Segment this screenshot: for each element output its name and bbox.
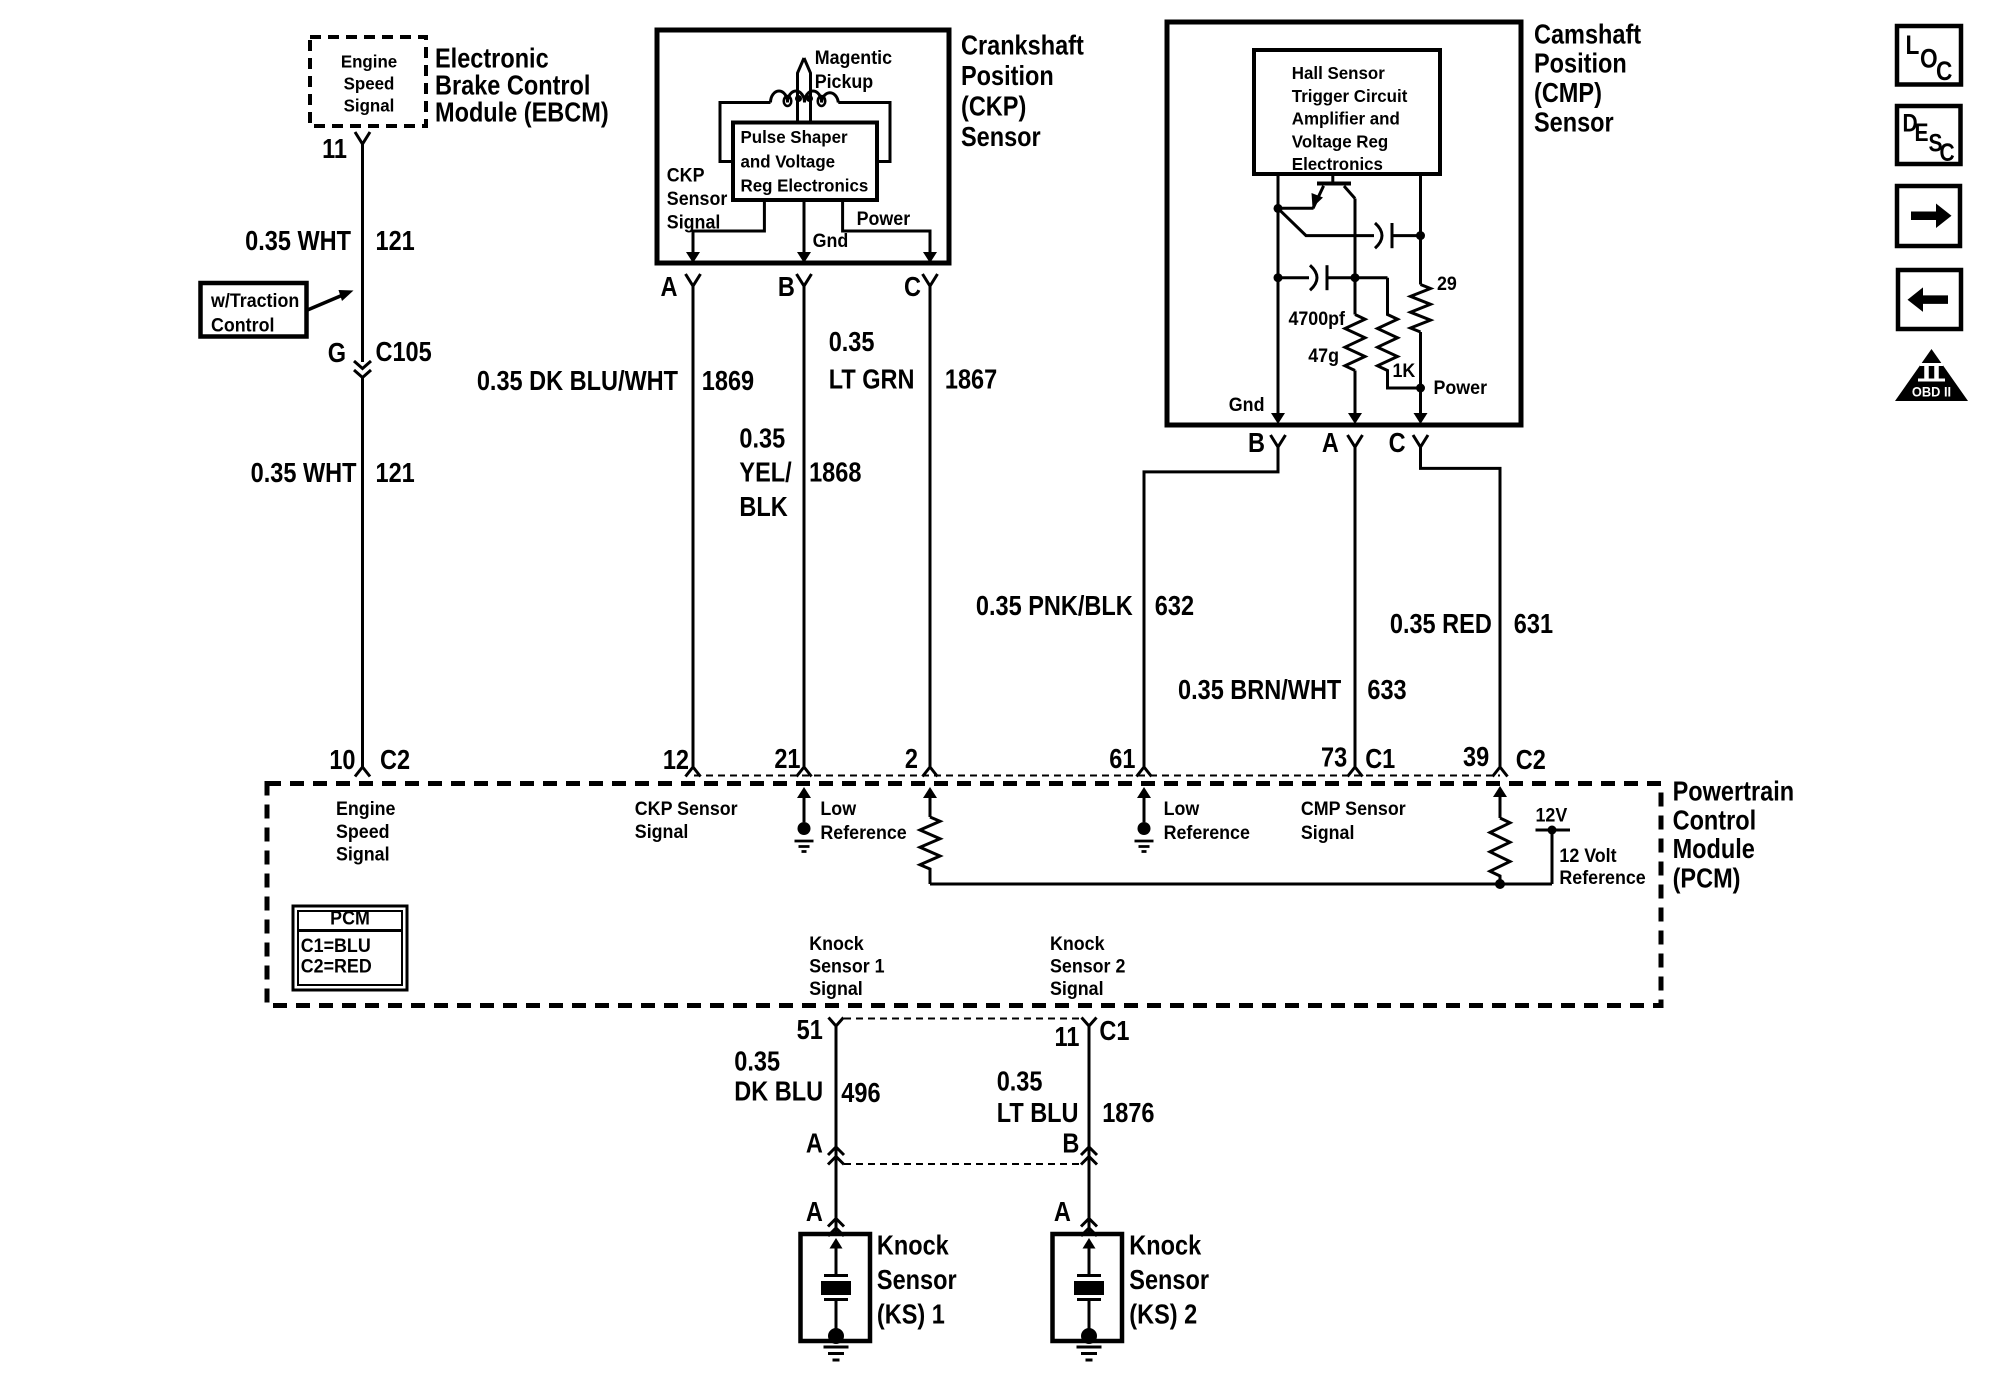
wire circuit 121 lower segment (C105 to PCM pin 10): [361, 378, 364, 768]
svg-text:E: E: [1915, 118, 1929, 146]
pin 11 connector Y: [355, 132, 370, 144]
pin 21 ground dot: [798, 822, 811, 835]
svg-text:Speed: Speed: [336, 820, 390, 842]
svg-text:Reference: Reference: [1559, 866, 1645, 888]
transistor Q1 collector: [1344, 186, 1355, 199]
CKP sensor outer box: [657, 30, 949, 263]
svg-text:BLK: BLK: [739, 492, 788, 522]
KS2 pin chevrons: [1081, 1219, 1097, 1237]
pin B connector Y: [797, 274, 812, 286]
KS1 internal arrow: [830, 1238, 843, 1249]
KS2 ground: [1077, 1347, 1102, 1360]
pin 21 ground: [795, 841, 814, 852]
pulse shaper inner box: [733, 123, 877, 201]
label Engine Speed Signal (PCM): [336, 797, 395, 864]
pins 51-11 thin dashed line: [844, 1018, 1082, 1020]
svg-text:Engine: Engine: [341, 51, 398, 72]
wire signal stub to pin A: [693, 200, 764, 253]
svg-text:PCM: PCM: [330, 907, 370, 929]
icon LOC box: [1897, 26, 1961, 85]
svg-text:w/Traction: w/Traction: [210, 289, 299, 311]
capacitor C1 (upper): [1375, 223, 1382, 248]
svg-text:(PCM): (PCM): [1673, 863, 1741, 893]
svg-text:Signal: Signal: [1301, 821, 1355, 843]
svg-text:DK BLU: DK BLU: [734, 1077, 823, 1107]
label Magentic Pickup: [815, 46, 892, 92]
KS2 piezo element: [1077, 1274, 1101, 1277]
PCM legend box: [293, 906, 407, 990]
svg-text:Signal: Signal: [344, 95, 395, 116]
label Knock Sensor 1 Signal: [809, 933, 884, 999]
wire 12V riser: [1551, 830, 1554, 884]
resistor 47g: [1345, 315, 1365, 371]
svg-text:B: B: [1062, 1129, 1079, 1159]
label CKP Sensor Signal (PCM): [635, 797, 738, 842]
svg-text:(KS) 2: (KS) 2: [1129, 1300, 1197, 1330]
svg-text:121: 121: [376, 226, 415, 256]
wire gnd stub to pin B: [803, 200, 806, 253]
transistor Q1 base bar: [1317, 182, 1351, 186]
svg-text:12: 12: [663, 745, 689, 775]
harness connector thin dashed line: [844, 1163, 1082, 1165]
wire emitter node to capacitor C1: [1278, 208, 1374, 235]
pin 51 connector Y: [829, 1018, 844, 1027]
node dot 12V bus: [1495, 879, 1505, 889]
svg-text:Sensor: Sensor: [1534, 107, 1614, 137]
svg-text:C: C: [1389, 428, 1406, 458]
svg-text:0.35 BRN/WHT: 0.35 BRN/WHT: [1178, 675, 1341, 705]
pin C connector Y: [923, 274, 938, 286]
svg-text:Sensor: Sensor: [667, 187, 727, 209]
svg-text:Electronic: Electronic: [435, 44, 549, 74]
svg-text:0.35 RED: 0.35 RED: [1390, 609, 1492, 639]
svg-text:0.35: 0.35: [829, 327, 875, 357]
svg-text:and Voltage: and Voltage: [741, 151, 836, 172]
svg-text:O: O: [1920, 44, 1938, 74]
svg-text:YEL/: YEL/: [739, 458, 791, 488]
w/Traction Control callout box: [201, 283, 307, 337]
svg-text:Sensor 2: Sensor 2: [1050, 955, 1125, 977]
CMP title "Camshaft Position (CMP) Sensor": [1534, 20, 1641, 138]
capacitor C2 (lower, 4700pf): [1278, 276, 1309, 279]
label CMP Sensor Signal (PCM): [1301, 797, 1406, 843]
svg-text:Camshaft: Camshaft: [1534, 20, 1641, 50]
svg-text:C1: C1: [1365, 744, 1395, 774]
label 12 Volt Reference: [1559, 844, 1645, 888]
svg-text:633: 633: [1367, 675, 1406, 705]
node dot B-wire lower cap: [1274, 273, 1283, 282]
wire circuit 1869 (CKP A to PCM 12): [692, 286, 695, 767]
label 0.35 YEL/ BLK: [739, 424, 791, 523]
svg-text:Reg Electronics: Reg Electronics: [741, 175, 869, 196]
pin 39 connector Y: [1493, 767, 1508, 777]
12V terminal bar: [1536, 829, 1571, 832]
label Low Reference (pin 21): [820, 797, 906, 843]
svg-text:C2: C2: [1516, 745, 1546, 775]
svg-text:Crankshaft: Crankshaft: [961, 31, 1084, 61]
KS1 ground: [824, 1347, 849, 1360]
svg-text:C1=BLU: C1=BLU: [301, 934, 371, 956]
svg-text:LT GRN: LT GRN: [829, 365, 915, 395]
wire CMP B internal: [1277, 174, 1280, 414]
svg-text:Control: Control: [1673, 806, 1757, 836]
svg-text:Sensor: Sensor: [877, 1265, 957, 1295]
PCM title "Powertrain Control Module (PCM)": [1673, 777, 1794, 894]
resistor R2 (pin 39 pullup): [1490, 818, 1510, 884]
svg-text:G: G: [328, 338, 346, 368]
svg-text:A: A: [806, 1129, 823, 1159]
svg-text:61: 61: [1109, 744, 1135, 774]
inline connector chevrons (496): [828, 1147, 844, 1165]
svg-text:B: B: [778, 272, 795, 302]
inline connector chevrons (1876): [1081, 1147, 1097, 1165]
pin 39 internal arrow: [1493, 786, 1507, 797]
KS2 internal arrow: [1083, 1238, 1096, 1249]
pin 11 connector Y (PCM C1): [1082, 1018, 1097, 1027]
pin 21 internal arrow: [797, 787, 811, 798]
svg-text:C105: C105: [376, 337, 432, 367]
svg-text:496: 496: [841, 1078, 880, 1108]
svg-text:Gnd: Gnd: [1229, 393, 1265, 415]
pin 61 ground: [1135, 841, 1154, 852]
svg-text:Module: Module: [1673, 834, 1755, 864]
svg-text:10: 10: [329, 745, 355, 775]
svg-text:OBD II: OBD II: [1912, 384, 1951, 399]
wire CMP C internal: [1419, 174, 1422, 414]
pin 61 internal arrow: [1137, 787, 1151, 798]
icon DESC box: [1897, 106, 1961, 164]
svg-text:Position: Position: [961, 61, 1054, 91]
w/Traction callout arrow: [306, 295, 344, 311]
svg-text:LT BLU: LT BLU: [997, 1098, 1079, 1128]
svg-text:C2=RED: C2=RED: [301, 955, 372, 977]
svg-text:Hall Sensor: Hall Sensor: [1292, 63, 1385, 84]
wire circuit 121 upper segment (EBCM to C105): [361, 144, 364, 362]
svg-text:Powertrain: Powertrain: [1673, 777, 1794, 807]
svg-text:Knock: Knock: [877, 1231, 949, 1261]
svg-text:0.35 PNK/BLK: 0.35 PNK/BLK: [976, 591, 1133, 621]
label Knock Sensor (KS) 1: [877, 1231, 957, 1330]
svg-text:0.35: 0.35: [734, 1047, 780, 1077]
svg-text:Engine: Engine: [336, 797, 395, 819]
svg-text:11: 11: [322, 134, 347, 164]
PCM dashed box: [267, 784, 1661, 1006]
svg-text:A: A: [661, 272, 678, 302]
svg-text:B: B: [1248, 428, 1265, 458]
svg-text:Gnd: Gnd: [813, 229, 849, 251]
node dot C1/C-wire: [1416, 231, 1425, 240]
pin B connector Y (CMP): [1271, 435, 1286, 447]
wire 12V reference bus: [930, 883, 1552, 886]
wire circuit 632 (CMP B to PCM 61): [1144, 447, 1278, 767]
coil junction dots: [795, 95, 802, 102]
svg-text:L: L: [1906, 30, 1920, 60]
svg-text:632: 632: [1155, 591, 1194, 621]
svg-text:Knock: Knock: [1129, 1231, 1201, 1261]
svg-text:0.35: 0.35: [997, 1067, 1043, 1097]
svg-text:Signal: Signal: [635, 820, 689, 842]
svg-text:Magentic: Magentic: [815, 46, 892, 68]
pin 2 connector Y: [923, 767, 938, 777]
svg-text:A: A: [806, 1197, 823, 1227]
svg-text:12V: 12V: [1536, 804, 1568, 826]
transistor Q1 emitter with arrow: [1278, 186, 1324, 209]
svg-text:Sensor: Sensor: [1129, 1265, 1209, 1295]
EBCM title "Electronic Brake Control Module (EBCM)": [435, 44, 609, 128]
wire circuit 1868 (CKP B to PCM 21): [803, 286, 806, 767]
node dot emitter/B-wire: [1274, 204, 1283, 213]
wire circuit 633 (CMP A to PCM 73): [1354, 447, 1357, 767]
hall sensor inner box: [1254, 50, 1440, 174]
pin A connector Y: [686, 274, 701, 286]
node dot power: [1416, 384, 1425, 393]
transistor Q1 base stub: [1331, 174, 1334, 182]
svg-text:C: C: [1936, 56, 1952, 86]
svg-text:C2: C2: [380, 745, 410, 775]
svg-text:73: 73: [1321, 743, 1347, 773]
svg-text:1876: 1876: [1102, 1098, 1154, 1128]
svg-text:C: C: [1940, 138, 1955, 166]
svg-text:4700pf: 4700pf: [1288, 307, 1345, 329]
svg-text:Signal: Signal: [809, 977, 863, 999]
svg-text:1869: 1869: [702, 366, 754, 396]
svg-text:(CKP): (CKP): [961, 92, 1026, 122]
svg-text:Pulse Shaper: Pulse Shaper: [741, 127, 848, 148]
svg-text:C1: C1: [1099, 1016, 1129, 1046]
svg-text:631: 631: [1514, 609, 1553, 639]
knock sensor KS2 box: [1053, 1234, 1123, 1341]
KS1 pin chevrons: [828, 1219, 844, 1237]
svg-text:2: 2: [905, 744, 918, 774]
KS1 piezo element: [824, 1274, 848, 1277]
icon OBD II triangle: [1895, 349, 1968, 401]
wire circuit 1867 (CKP C to PCM 2): [929, 286, 932, 767]
svg-text:Reference: Reference: [1164, 821, 1250, 843]
svg-text:Position: Position: [1534, 49, 1627, 79]
svg-text:0.35 WHT: 0.35 WHT: [245, 226, 351, 256]
wire power stub to pin C: [843, 200, 930, 253]
svg-text:29: 29: [1437, 272, 1457, 294]
svg-text:12 Volt: 12 Volt: [1559, 844, 1616, 866]
svg-text:Signal: Signal: [667, 211, 721, 233]
pin 73 connector Y: [1348, 767, 1363, 777]
label Low Reference (pin 61): [1164, 797, 1250, 843]
svg-text:1867: 1867: [945, 365, 997, 395]
svg-text:Reference: Reference: [820, 821, 906, 843]
svg-text:11: 11: [1055, 1022, 1080, 1052]
svg-text:47g: 47g: [1308, 344, 1339, 366]
svg-text:0.35 WHT: 0.35 WHT: [251, 458, 357, 488]
svg-text:C: C: [904, 272, 921, 302]
resistor 29: [1411, 285, 1431, 333]
EBCM internal label "Engine Speed Signal": [341, 51, 398, 116]
svg-text:Amplifier and: Amplifier and: [1292, 108, 1400, 129]
EBCM module dashed box: [310, 37, 426, 126]
pin 61 ground dot: [1138, 822, 1151, 835]
label 0.35 DK BLU: [734, 1047, 823, 1107]
label CKP Sensor Signal: [667, 164, 727, 233]
svg-text:1868: 1868: [809, 458, 861, 488]
svg-text:CKP: CKP: [667, 164, 705, 186]
svg-text:A: A: [1322, 428, 1339, 458]
svg-text:Trigger Circuit: Trigger Circuit: [1292, 86, 1408, 107]
svg-text:Speed: Speed: [344, 73, 395, 94]
svg-text:0.35 DK BLU/WHT: 0.35 DK BLU/WHT: [477, 366, 678, 396]
svg-text:Electronics: Electronics: [1292, 154, 1383, 175]
svg-text:0.35: 0.35: [739, 424, 785, 454]
resistor R1 (pin 2 pullup): [920, 817, 940, 884]
svg-text:Signal: Signal: [1050, 977, 1104, 999]
svg-text:51: 51: [797, 1015, 823, 1045]
label 0.35 LT GRN: [829, 327, 915, 395]
pin 21 connector Y: [797, 767, 812, 777]
svg-text:Brake Control: Brake Control: [435, 71, 590, 101]
svg-text:Sensor: Sensor: [961, 122, 1041, 152]
connector C105 double chevron: [354, 361, 371, 378]
wire circuit 631 (CMP C to PCM 39): [1421, 447, 1501, 767]
label Knock Sensor 2 Signal: [1050, 933, 1125, 999]
wire coil right rail: [838, 103, 890, 162]
svg-text:39: 39: [1463, 742, 1489, 772]
pin 61 connector Y: [1137, 767, 1152, 777]
svg-text:Pickup: Pickup: [815, 70, 874, 92]
CKP title "Crankshaft Position (CKP) Sensor": [961, 31, 1084, 153]
wire circuit 496 (PCM 51 to KS1): [835, 1026, 838, 1234]
pin 12 connector Y: [686, 767, 701, 777]
icon left arrow box: [1898, 270, 1961, 329]
svg-text:21: 21: [774, 744, 800, 774]
knock sensor KS1 box: [801, 1234, 871, 1341]
wire CMP A internal: [1354, 199, 1357, 415]
svg-text:(KS) 1: (KS) 1: [877, 1300, 945, 1330]
svg-text:Knock: Knock: [809, 933, 864, 955]
magnetic pickup needle: [798, 58, 811, 123]
pickup coil L1: [771, 91, 839, 102]
label Knock Sensor (KS) 2: [1129, 1231, 1209, 1330]
svg-text:Low: Low: [820, 797, 856, 819]
svg-text:Signal: Signal: [336, 843, 390, 865]
pin A connector Y (CMP): [1348, 435, 1363, 447]
svg-text:A: A: [1054, 1197, 1071, 1227]
svg-text:Voltage Reg: Voltage Reg: [1292, 131, 1388, 152]
icon right arrow box: [1897, 186, 1960, 246]
svg-text:Module (EBCM): Module (EBCM): [435, 98, 609, 128]
wire circuit 1876 (PCM 11 to KS2): [1088, 1026, 1091, 1234]
svg-text:Knock: Knock: [1050, 933, 1105, 955]
svg-text:Power: Power: [1434, 376, 1488, 398]
pin 10 connector Y: [355, 767, 370, 777]
KS2 case ground dot: [1081, 1328, 1097, 1344]
resistor 1K: [1378, 278, 1421, 388]
svg-text:121: 121: [376, 458, 415, 488]
CMP sensor outer box: [1167, 22, 1521, 425]
node dot A-wire lower cap: [1351, 273, 1360, 282]
svg-text:1K: 1K: [1393, 359, 1416, 381]
svg-text:Sensor 1: Sensor 1: [809, 955, 884, 977]
wire coil left rail: [720, 103, 771, 162]
svg-text:CKP Sensor: CKP Sensor: [635, 797, 738, 819]
label 0.35 LT BLU: [997, 1067, 1079, 1129]
svg-text:Power: Power: [857, 207, 911, 229]
KS1 case ground dot: [828, 1328, 844, 1344]
PCM connector thin dashed line: [694, 775, 1500, 777]
svg-text:Low: Low: [1164, 797, 1200, 819]
pin C connector Y (CMP): [1413, 435, 1428, 447]
svg-text:(CMP): (CMP): [1534, 78, 1602, 108]
svg-text:CMP Sensor: CMP Sensor: [1301, 797, 1406, 819]
svg-text:Control: Control: [211, 314, 274, 336]
pin 2 internal arrow: [923, 787, 937, 798]
